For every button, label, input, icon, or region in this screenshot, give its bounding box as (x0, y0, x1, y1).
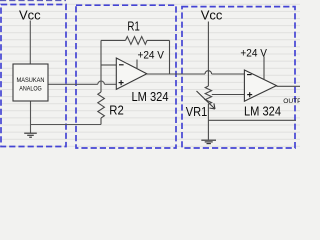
svg-text:MASUKAN: MASUKAN (17, 77, 45, 84)
svg-text:VR1: VR1 (186, 104, 208, 119)
svg-text:LM 324: LM 324 (244, 105, 281, 119)
svg-text:OUTPUT: OUTPUT (283, 98, 300, 105)
svg-text:+24 V: +24 V (138, 50, 165, 62)
svg-text:+24 V: +24 V (240, 47, 267, 59)
svg-text:R2: R2 (109, 103, 124, 118)
svg-text:Vcc: Vcc (19, 8, 41, 23)
svg-text:LM 324: LM 324 (132, 90, 169, 104)
svg-text:ANALOG: ANALOG (19, 85, 42, 92)
svg-text:Vcc: Vcc (201, 8, 223, 23)
svg-text:R1: R1 (127, 19, 140, 34)
